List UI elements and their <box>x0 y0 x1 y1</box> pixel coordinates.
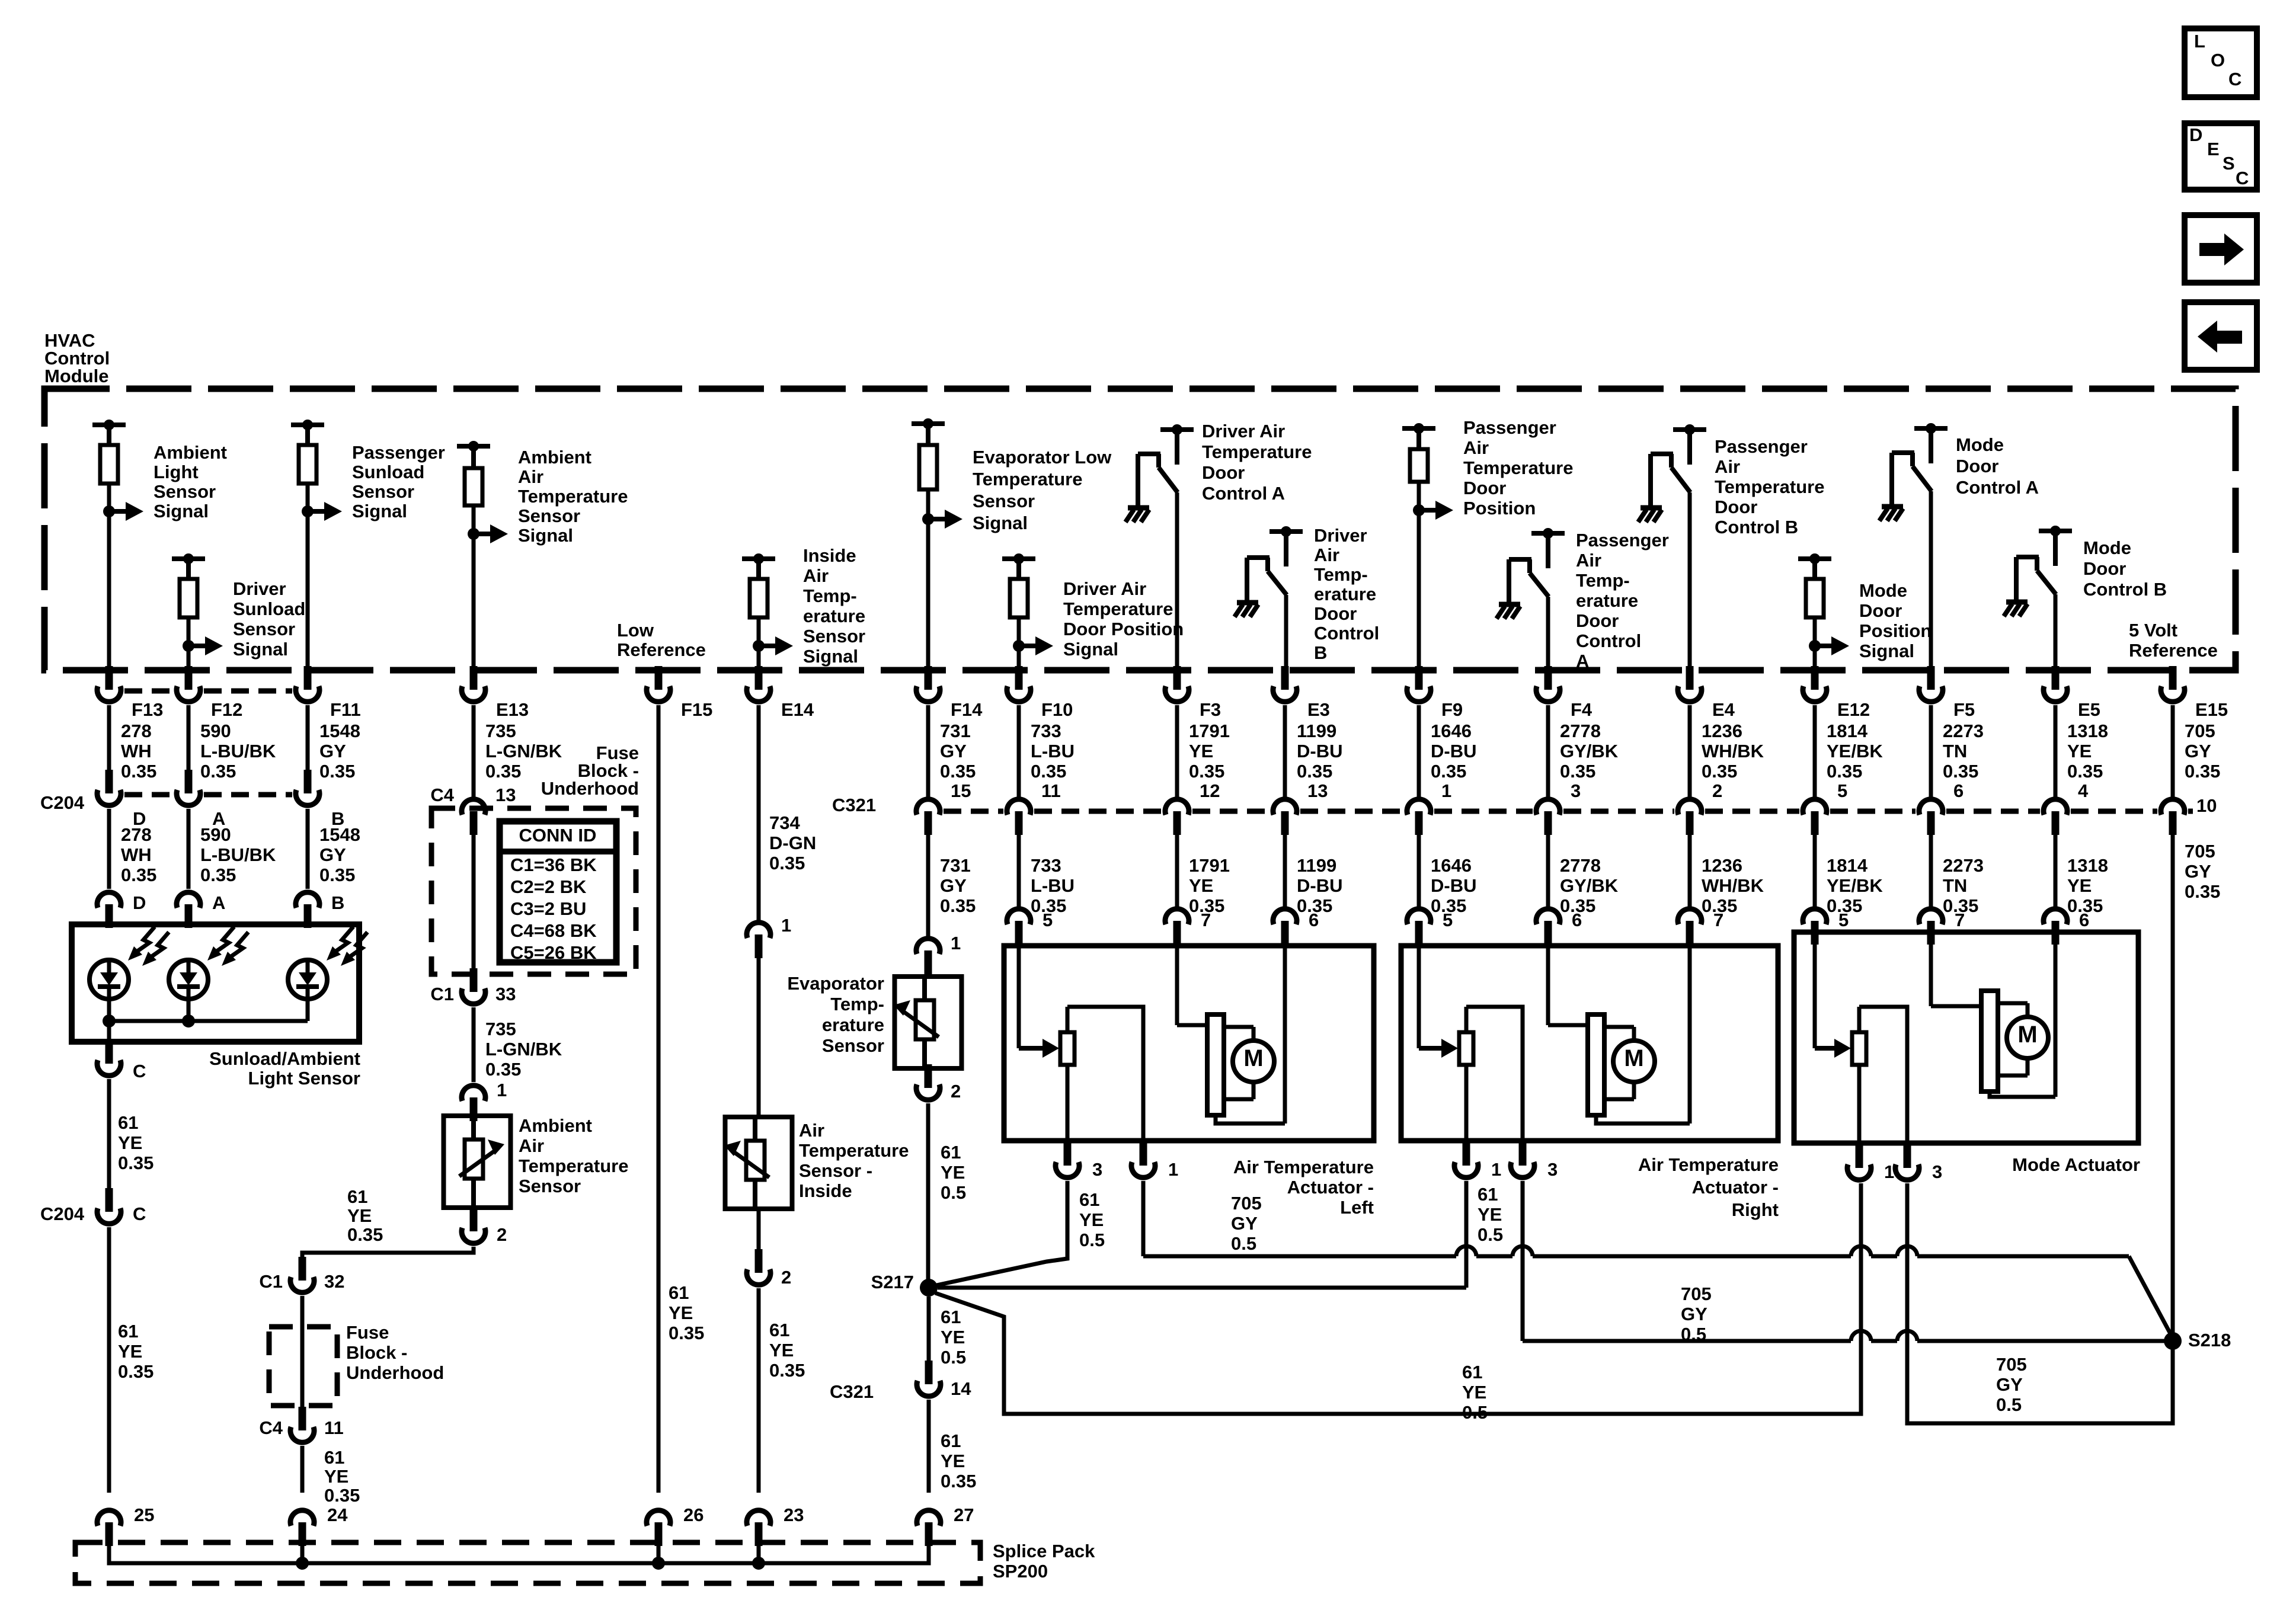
connector C321 pin 1 <box>1415 811 1423 835</box>
wire x2168 to C321 <box>1283 705 1287 797</box>
svg-text:Sensor: Sensor <box>154 481 216 502</box>
svg-text:Mode: Mode <box>1859 580 1907 601</box>
svg-text:Evaporator Low: Evaporator Low <box>973 447 1112 468</box>
svg-text:F4: F4 <box>1571 699 1593 720</box>
svg-text:E14: E14 <box>781 699 814 720</box>
svg-text:Reference: Reference <box>617 639 706 660</box>
svg-text:1814: 1814 <box>1827 855 1868 876</box>
svg-text:0.35: 0.35 <box>118 1153 154 1173</box>
resistor driver air temperature door position signal (F10) <box>1002 556 1035 561</box>
svg-text:Low: Low <box>617 620 654 641</box>
wire S218 to mode actuator pin 3 (705 GY 0.5) <box>1907 1183 2173 1423</box>
svg-text:6: 6 <box>1572 910 1582 930</box>
actuator pin 5 connector <box>1415 921 1423 945</box>
svg-text:27: 27 <box>954 1505 974 1525</box>
splice pack bus junctions <box>296 1557 309 1570</box>
actuator pin 5 connector <box>1811 921 1819 945</box>
svg-text:C204: C204 <box>40 1204 85 1224</box>
svg-text:Door: Door <box>1314 603 1357 624</box>
wire C321 to actuator pin x3062 <box>1813 833 1817 907</box>
svg-text:D-BU: D-BU <box>1431 875 1477 896</box>
svg-text:B: B <box>331 892 344 913</box>
svg-text:C4: C4 <box>259 1417 283 1438</box>
svg-text:WH/BK: WH/BK <box>1702 741 1764 761</box>
svg-text:Temperature: Temperature <box>1463 457 1574 478</box>
svg-text:Actuator -: Actuator - <box>1287 1177 1374 1198</box>
wire E14 to connector 1 <box>757 705 761 920</box>
svg-text:Signal: Signal <box>1063 639 1118 660</box>
svg-text:Ambient: Ambient <box>154 442 227 463</box>
svg-text:Evaporator: Evaporator <box>787 973 884 994</box>
svg-text:GY: GY <box>2185 741 2211 761</box>
svg-text:YE: YE <box>118 1132 142 1153</box>
svg-text:F10: F10 <box>1041 699 1073 720</box>
svg-text:6: 6 <box>2079 910 2089 930</box>
photodiode driver sunload <box>169 960 208 999</box>
svg-text:0.35: 0.35 <box>118 1361 154 1382</box>
svg-text:0.35: 0.35 <box>2067 761 2103 782</box>
motor left actuator <box>1175 946 1179 1025</box>
svg-text:61: 61 <box>941 1430 961 1451</box>
svg-text:erature: erature <box>1576 590 1638 611</box>
svg-text:0.35: 0.35 <box>769 1360 805 1381</box>
svg-text:0.35: 0.35 <box>324 1485 360 1506</box>
svg-text:GY: GY <box>1231 1213 1258 1234</box>
svg-text:2778: 2778 <box>1560 855 1601 876</box>
svg-text:Temperature: Temperature <box>518 486 628 507</box>
actuator right pin 3 <box>1519 1142 1527 1166</box>
svg-text:1318: 1318 <box>2067 855 2108 876</box>
wire actuator left pin 1 to S218 (705 GY 0.5) <box>1141 1181 1146 1256</box>
svg-text:YE: YE <box>941 1451 965 1471</box>
svg-text:0.5: 0.5 <box>1079 1230 1105 1250</box>
sunload sensor pin D <box>105 904 113 928</box>
splice pack pin 26 <box>655 1522 663 1546</box>
wire C321-10 to S218 (705 GY) <box>2171 833 2175 1341</box>
air temperature sensor inside pin 2 <box>755 1249 763 1273</box>
svg-text:Position: Position <box>1463 498 1536 518</box>
svg-text:0.35: 0.35 <box>121 761 156 782</box>
svg-text:2: 2 <box>497 1224 507 1245</box>
svg-text:7: 7 <box>1713 910 1723 930</box>
connector C321 pin 10 <box>2169 811 2177 835</box>
svg-text:C: C <box>2228 69 2241 89</box>
svg-text:WH/BK: WH/BK <box>1702 875 1764 896</box>
svg-text:L-GN/BK: L-GN/BK <box>485 1039 562 1060</box>
svg-text:Door: Door <box>1576 610 1619 631</box>
wire sensor inside to pin 2 <box>757 1209 761 1251</box>
svg-text:0.35: 0.35 <box>940 761 976 782</box>
svg-text:GY: GY <box>319 741 346 761</box>
wire x3062 to C321 <box>1813 705 1817 797</box>
svg-text:Light: Light <box>154 462 199 482</box>
svg-text:1: 1 <box>1441 780 1451 801</box>
svg-text:erature: erature <box>1314 584 1376 604</box>
connector C321 pin 15 <box>925 811 932 835</box>
svg-text:GY: GY <box>1996 1374 2023 1395</box>
svg-text:1646: 1646 <box>1431 855 1472 876</box>
svg-text:61: 61 <box>118 1321 138 1342</box>
svg-text:Air: Air <box>1314 545 1339 565</box>
CONN ID table <box>500 821 616 962</box>
svg-text:C2=2 BK: C2=2 BK <box>510 876 587 897</box>
ambient air temperature sensor pin 2 <box>470 1208 478 1231</box>
svg-text:TN: TN <box>1943 875 1967 896</box>
svg-text:Ambient: Ambient <box>518 447 591 468</box>
svg-text:0.35: 0.35 <box>200 761 236 782</box>
svg-text:D-BU: D-BU <box>1297 741 1343 761</box>
svg-text:D-BU: D-BU <box>1297 875 1343 896</box>
ambient air temperature sensor pin 1 <box>470 1097 478 1121</box>
svg-text:1: 1 <box>951 933 961 953</box>
wire x2851 to C321 <box>1688 705 1692 797</box>
wire x3258 to C321 <box>1929 705 1933 797</box>
svg-text:15: 15 <box>951 780 971 801</box>
svg-text:F13: F13 <box>132 699 163 720</box>
svg-text:L-GN/BK: L-GN/BK <box>485 741 562 761</box>
svg-text:Temperature: Temperature <box>1202 441 1312 462</box>
svg-text:731: 731 <box>940 721 971 741</box>
svg-text:GY: GY <box>940 741 967 761</box>
HVAC Control Module dashed box <box>44 389 2236 670</box>
evaporator sensor pin 1 <box>925 950 932 974</box>
mode actuator pin 3 <box>1904 1144 1911 1168</box>
svg-text:erature: erature <box>822 1014 884 1035</box>
potentiometer left actuator <box>1017 946 1021 1048</box>
connector pin F10 <box>1015 666 1023 690</box>
svg-text:A: A <box>1576 651 1589 671</box>
legend box LOC <box>2185 28 2257 97</box>
svg-text:5: 5 <box>1443 910 1453 930</box>
connector pin E4 <box>1686 666 1694 690</box>
wire through fuse block <box>472 833 476 973</box>
legend box DESC <box>2185 123 2257 190</box>
svg-text:GY: GY <box>2185 861 2211 882</box>
wire actuator left pin 3 to S217 (61 YE 0.5) <box>936 1181 1067 1285</box>
wire x1986 to C321 <box>1175 705 1179 797</box>
wire C321-14 to splice 27 <box>927 1400 931 1493</box>
svg-text:278: 278 <box>121 721 152 741</box>
svg-text:0.5: 0.5 <box>941 1347 966 1368</box>
svg-text:61: 61 <box>324 1447 344 1468</box>
svg-text:0.35: 0.35 <box>200 865 236 885</box>
evaporator temperature sensor <box>895 977 962 1068</box>
actuator pin 7 connector <box>1927 921 1935 945</box>
svg-text:F5: F5 <box>1953 699 1975 720</box>
sunload sensor pin B <box>304 904 312 928</box>
resistor passenger sunload sensor signal (F11) <box>291 422 324 427</box>
connector C321 pin 4 <box>2052 811 2060 835</box>
svg-text:D: D <box>133 892 146 913</box>
svg-text:Temperature: Temperature <box>519 1156 629 1176</box>
svg-text:2: 2 <box>781 1267 791 1288</box>
svg-text:GY: GY <box>319 844 346 865</box>
svg-text:Splice Pack: Splice Pack <box>993 1541 1095 1561</box>
wire S217 to mode actuator pin 1 (61 YE 0.5) <box>935 1183 1861 1414</box>
switch driver air temperature door control A (F3) <box>1160 427 1194 432</box>
resistor ambient air temperature sensor signal (E13) <box>457 444 490 449</box>
fuse block underhood dashed box small <box>269 1327 337 1406</box>
svg-text:YE: YE <box>1462 1382 1486 1403</box>
svg-text:1791: 1791 <box>1189 855 1230 876</box>
svg-text:M: M <box>2017 1022 2037 1048</box>
wire actuator right pin 1 to S217 (61 YE 0.5) <box>1464 1181 1469 1288</box>
svg-text:YE: YE <box>118 1341 142 1362</box>
wire C321 to actuator pin x3468 <box>2054 833 2058 907</box>
svg-text:Door: Door <box>1859 600 1902 621</box>
wire C321 to actuator pin x2612 <box>1546 833 1550 907</box>
actuator pin 7 connector <box>1173 921 1181 945</box>
svg-text:Ambient: Ambient <box>519 1115 592 1136</box>
svg-text:E5: E5 <box>2078 699 2100 720</box>
svg-text:Light Sensor: Light Sensor <box>248 1068 360 1089</box>
svg-text:1: 1 <box>781 915 791 936</box>
svg-text:E3: E3 <box>1307 699 1330 720</box>
connector pin E13 <box>470 666 478 690</box>
resistor passenger air temperature door position (F9) <box>1402 426 1435 431</box>
svg-text:Signal: Signal <box>1859 641 1914 661</box>
svg-text:C4=68 BK: C4=68 BK <box>510 920 597 941</box>
connector pin E15 <box>2169 666 2177 690</box>
wire x2612 to C321 <box>1546 705 1550 797</box>
svg-text:731: 731 <box>940 855 971 876</box>
wire x2394 to C321 <box>1417 705 1421 797</box>
svg-text:0.5: 0.5 <box>941 1182 966 1203</box>
svg-text:0.35: 0.35 <box>1943 761 1978 782</box>
svg-text:705: 705 <box>1681 1283 1712 1304</box>
svg-text:1548: 1548 <box>319 824 360 845</box>
svg-text:Sensor: Sensor <box>233 619 295 639</box>
wire C204 to sunload sensor <box>187 809 191 889</box>
potentiometer mode actuator <box>1813 932 1817 1048</box>
wire 61 YE from sunload sensor <box>107 1079 111 1189</box>
wire F15 low reference down <box>657 705 661 1493</box>
actuator pin 7 connector <box>1686 921 1694 945</box>
svg-text:1646: 1646 <box>1431 721 1472 741</box>
wire C321-15 to evaporator sensor <box>926 833 930 936</box>
svg-text:Temp-: Temp- <box>830 994 884 1014</box>
svg-text:Temperature: Temperature <box>1715 476 1825 497</box>
svg-text:2778: 2778 <box>1560 721 1601 741</box>
svg-text:733: 733 <box>1031 855 1061 876</box>
wire x3468 to C321 <box>2054 705 2058 797</box>
svg-text:590: 590 <box>200 721 231 741</box>
mode actuator box <box>1794 932 2138 1143</box>
svg-text:YE: YE <box>347 1205 372 1226</box>
actuator pin 6 connector <box>1281 921 1289 945</box>
sunload sensor internal wires <box>107 999 111 1021</box>
svg-text:Control B: Control B <box>2083 579 2167 600</box>
svg-text:E12: E12 <box>1837 699 1870 720</box>
svg-text:61: 61 <box>941 1307 961 1327</box>
wire C321 to actuator pin x2394 <box>1417 833 1421 907</box>
svg-text:C204: C204 <box>40 792 85 813</box>
svg-text:D: D <box>2189 124 2202 145</box>
sunload sensor pin A <box>185 904 193 928</box>
mode actuator pin 1 <box>1856 1144 1863 1168</box>
svg-text:C321: C321 <box>830 1381 874 1402</box>
wire C321 to actuator pin x1719 <box>1017 833 1021 907</box>
svg-text:Air: Air <box>803 565 829 586</box>
svg-text:1: 1 <box>1491 1159 1501 1180</box>
svg-text:Signal: Signal <box>973 513 1028 533</box>
svg-text:735: 735 <box>485 1019 516 1039</box>
air temperature actuator right box <box>1401 946 1778 1141</box>
wire through fuse block small <box>300 1296 305 1426</box>
svg-text:YE: YE <box>324 1466 348 1487</box>
svg-text:C1=36 BK: C1=36 BK <box>510 854 597 875</box>
svg-text:A: A <box>212 892 225 913</box>
actuator pin 6 connector <box>2052 921 2060 945</box>
svg-text:Sensor: Sensor <box>518 505 580 526</box>
svg-text:Control: Control <box>1314 623 1379 644</box>
svg-text:TN: TN <box>1943 741 1967 761</box>
svg-text:1318: 1318 <box>2067 721 2108 741</box>
svg-text:61: 61 <box>1079 1189 1099 1210</box>
svg-text:Control A: Control A <box>1956 477 2039 498</box>
svg-text:0.35: 0.35 <box>769 853 805 873</box>
svg-text:C1: C1 <box>430 984 454 1004</box>
svg-text:735: 735 <box>485 721 516 741</box>
wire C1-33 to ambient air temperature sensor <box>472 1007 476 1082</box>
svg-text:E15: E15 <box>2195 699 2228 720</box>
svg-text:0.35: 0.35 <box>2185 881 2220 902</box>
splice pack pin 25 <box>105 1522 113 1546</box>
svg-text:YE: YE <box>769 1340 794 1361</box>
svg-text:Right: Right <box>1732 1199 1779 1220</box>
svg-text:GY/BK: GY/BK <box>1560 875 1619 896</box>
svg-text:E: E <box>2207 139 2220 159</box>
svg-text:Signal: Signal <box>233 639 288 660</box>
svg-text:0.35: 0.35 <box>669 1323 704 1343</box>
connector C321 pin 5 <box>1811 811 1819 835</box>
svg-text:0.35: 0.35 <box>347 1224 383 1245</box>
svg-text:0.5: 0.5 <box>1681 1324 1706 1345</box>
air temperature actuator left box <box>1004 946 1374 1141</box>
connector pin F15 <box>655 666 663 690</box>
resistor ambient light sensor signal (F13) <box>92 422 126 427</box>
svg-text:33: 33 <box>495 984 516 1004</box>
svg-text:Air Temperature: Air Temperature <box>1233 1157 1374 1177</box>
switch driver air temperature door control B (E3) <box>1269 529 1303 534</box>
svg-text:1199: 1199 <box>1297 855 1336 876</box>
wire C321 to actuator pin x3258 <box>1929 833 1933 907</box>
switch passenger air temperature door control A (F4) <box>1531 531 1565 536</box>
svg-text:B: B <box>1314 642 1327 663</box>
svg-text:L-BU: L-BU <box>1031 875 1075 896</box>
svg-text:Sunload/Ambient: Sunload/Ambient <box>209 1048 360 1069</box>
svg-text:14: 14 <box>951 1378 971 1399</box>
svg-text:10: 10 <box>2196 795 2217 816</box>
svg-text:Temperature: Temperature <box>1063 598 1173 619</box>
svg-text:0.35: 0.35 <box>319 865 355 885</box>
svg-text:1: 1 <box>497 1080 507 1100</box>
connector C321 pin 3 <box>1544 811 1552 835</box>
wire C321 to actuator pin x2851 <box>1688 833 1692 907</box>
wire F12 to C204 <box>187 705 191 771</box>
svg-text:0.5: 0.5 <box>1231 1233 1256 1254</box>
svg-text:L-BU/BK: L-BU/BK <box>200 741 276 761</box>
svg-text:Mode: Mode <box>2083 537 2131 558</box>
svg-text:705: 705 <box>1231 1193 1262 1214</box>
svg-text:YE: YE <box>941 1327 965 1347</box>
connector C204 dashes <box>124 792 173 798</box>
svg-text:3: 3 <box>1092 1159 1102 1180</box>
svg-text:278: 278 <box>121 824 152 845</box>
svg-text:0.35: 0.35 <box>1431 761 1466 782</box>
svg-text:Signal: Signal <box>803 646 858 667</box>
svg-text:Passenger: Passenger <box>1576 530 1669 550</box>
actuator left pin 1 <box>1140 1142 1147 1166</box>
wire C4-11 to splice 24 <box>300 1446 305 1493</box>
wire C204 to sunload sensor <box>107 809 111 889</box>
svg-text:Door: Door <box>1463 478 1506 498</box>
switch mode door control B (E5) <box>2039 529 2072 533</box>
connector E14 pin 1 <box>755 934 763 958</box>
svg-text:25: 25 <box>134 1505 154 1525</box>
svg-text:YE: YE <box>669 1302 693 1323</box>
svg-text:F9: F9 <box>1441 699 1463 720</box>
splice S218 <box>2164 1332 2182 1350</box>
svg-text:0.5: 0.5 <box>1478 1224 1503 1245</box>
svg-text:5 Volt: 5 Volt <box>2129 620 2177 641</box>
svg-text:YE: YE <box>1079 1209 1104 1230</box>
svg-text:1: 1 <box>1168 1159 1178 1180</box>
svg-text:YE/BK: YE/BK <box>1827 741 1883 761</box>
wire C321 to actuator pin x2168 <box>1283 833 1287 907</box>
svg-text:Inside: Inside <box>799 1180 852 1201</box>
svg-text:Reference: Reference <box>2129 640 2218 661</box>
connector C321 pin 2 <box>1686 811 1694 835</box>
switch mode door control A (F5) <box>1914 426 1948 431</box>
resistor evaporator low temperature sensor signal (F14) <box>912 421 945 426</box>
svg-text:Sunload: Sunload <box>233 598 305 619</box>
svg-text:Passenger: Passenger <box>1463 417 1556 438</box>
svg-text:F14: F14 <box>951 699 983 720</box>
motor mode actuator <box>1929 932 1933 1006</box>
connector pin E3 <box>1281 666 1289 690</box>
wire pin 2 to splice 23 <box>757 1288 761 1493</box>
svg-text:YE: YE <box>2067 741 2092 761</box>
svg-text:0.35: 0.35 <box>1560 761 1595 782</box>
actuator pin 6 connector <box>1544 921 1552 945</box>
svg-text:SP200: SP200 <box>993 1561 1048 1582</box>
svg-text:13: 13 <box>1307 780 1328 801</box>
svg-text:0.35: 0.35 <box>1827 761 1862 782</box>
svg-text:3: 3 <box>1932 1161 1942 1182</box>
svg-text:61: 61 <box>1462 1362 1482 1382</box>
svg-text:S217: S217 <box>871 1272 914 1292</box>
svg-text:61: 61 <box>769 1320 789 1340</box>
svg-text:Sensor: Sensor <box>803 626 865 646</box>
connector pin E14 <box>755 666 763 690</box>
svg-text:Temp-: Temp- <box>1576 570 1630 591</box>
connector C321 pin 6 <box>1927 811 1935 835</box>
svg-text:11: 11 <box>324 1417 344 1438</box>
resistor mode door position signal (E12) <box>1798 556 1831 561</box>
svg-text:YE/BK: YE/BK <box>1827 875 1883 896</box>
actuator right pin 1 <box>1463 1142 1470 1166</box>
connector C204 pin A <box>185 770 193 793</box>
svg-text:590: 590 <box>200 824 231 845</box>
sunload sensor pin C <box>105 1040 113 1064</box>
svg-text:Temp-: Temp- <box>803 585 857 606</box>
ambient air temperature sensor <box>444 1116 511 1208</box>
wire C204-C to splice pack 25 <box>107 1227 111 1493</box>
svg-text:1199: 1199 <box>1297 721 1336 741</box>
svg-text:YE: YE <box>941 1162 965 1183</box>
svg-text:Module: Module <box>44 366 109 386</box>
